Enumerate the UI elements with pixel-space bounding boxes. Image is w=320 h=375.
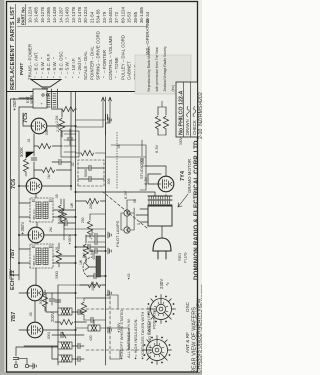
tone capacitor C14 xyxy=(89,176,91,182)
ground symbol under V1 xyxy=(108,327,111,333)
svg-text:+: + xyxy=(89,237,94,240)
wire: left mid bus xyxy=(57,285,59,365)
tube V6 7Y4 rectifier xyxy=(158,176,174,192)
svg-text:” – S.W. ”: ” – S.W. ” xyxy=(40,57,45,78)
svg-text:7Y4: 7Y4 xyxy=(180,170,186,181)
svg-text:Zealand Vintage Radio Society: Zealand Vintage Radio Society xyxy=(163,46,167,92)
svg-text:15-53: 15-53 xyxy=(127,11,132,23)
wire: 1st IF to V3 grid xyxy=(36,243,38,244)
svg-text:.005: .005 xyxy=(107,178,111,185)
wire: V3 plate to 2nd IF xyxy=(36,222,38,227)
switch gang dashed diagonal xyxy=(103,192,147,228)
svg-text:GRAMO MOTOR: GRAMO MOTOR xyxy=(187,159,192,193)
oscillator resistor R7 xyxy=(42,294,47,307)
wire: wafer S1 feed xyxy=(106,328,130,359)
trimmer capacitor C2 xyxy=(78,343,80,349)
svg-text:RED: RED xyxy=(177,253,182,261)
wire: 2nd IF top feeds xyxy=(19,203,30,217)
output transformer T6 xyxy=(33,89,58,108)
antenna terminal xyxy=(14,364,17,367)
tone control dashed box xyxy=(78,160,104,186)
wire: V1 cathode down xyxy=(43,329,76,331)
bc osc coil L4 xyxy=(88,325,100,331)
cathode resistor R3 xyxy=(88,282,101,287)
ground symbol under V2 xyxy=(108,290,111,296)
heater capacitor C16 xyxy=(141,158,143,164)
svg-text:✦= HIGH INSULATION.: ✦= HIGH INSULATION. xyxy=(133,318,138,360)
wire: V2 plate to top xyxy=(19,292,27,294)
svg-text:28-85: 28-85 xyxy=(133,11,138,23)
svg-text:ALL WATTAGE = ½ W.: ALL WATTAGE = ½ W. xyxy=(126,318,131,358)
ground below earth terminal xyxy=(33,363,36,369)
svg-text:2-10 NZ(RMS)4202: 2-10 NZ(RMS)4202 xyxy=(198,92,202,139)
wire: transformer leads up xyxy=(136,209,148,222)
svg-text:100μf: 100μf xyxy=(91,280,95,291)
svg-text:ANT & RF: ANT & RF xyxy=(185,332,190,353)
tuning gang capacitor C4 xyxy=(52,332,84,338)
wire: output transformer to bus xyxy=(19,98,33,107)
resistor R17 below second IF xyxy=(58,205,63,218)
svg-text:DOMINION RADIO & ELECTRICAL CO: DOMINION RADIO & ELECTRICAL CORP. LTD. xyxy=(193,138,200,280)
svg-text:∿: ∿ xyxy=(165,282,171,286)
loudspeaker cone xyxy=(31,80,61,88)
svg-text:” – POINTER: ” – POINTER xyxy=(102,50,107,78)
trimmer capacitor C1 xyxy=(78,356,80,362)
svg-text:✦VOLTAGES TAKEN WITH: ✦VOLTAGES TAKEN WITH xyxy=(140,311,145,360)
svg-text:+: + xyxy=(39,102,44,105)
svg-text:10-1224: 10-1224 xyxy=(27,6,32,23)
oscillator grid capacitor C5 xyxy=(55,300,61,302)
wire: V5 cathode down xyxy=(47,125,76,127)
pilot lamp P1 xyxy=(124,227,130,233)
wire: topmost HT line xyxy=(11,99,34,275)
coupling capacitor C12 xyxy=(33,146,35,178)
svg-text:2.2M: 2.2M xyxy=(56,124,60,132)
grid resistor R9 xyxy=(38,143,51,148)
oscillator coil L3 xyxy=(58,308,72,315)
switch gang dashed link ant xyxy=(86,349,146,351)
svg-text:✦350V: ✦350V xyxy=(20,222,25,235)
svg-text:36-34: 36-34 xyxy=(145,11,150,23)
2nd IF transformer T5 xyxy=(30,198,53,222)
svg-text:PART No: PART No xyxy=(21,7,26,25)
resistor R13 xyxy=(62,106,75,111)
tube V1 7B7 RF amplifier xyxy=(27,322,43,338)
svg-text:8μf: 8μf xyxy=(82,253,86,258)
svg-text:SPKR: SPKR xyxy=(30,94,34,104)
switch gang dashed link horizontal xyxy=(109,295,111,359)
svg-text:with permission from The New: with permission from The New xyxy=(155,47,159,92)
resistor R12 2.2M xyxy=(59,118,64,131)
wire: upper mid bus xyxy=(70,92,72,190)
svg-text:” – TONE: ” – TONE xyxy=(114,57,119,78)
svg-text:20K: 20K xyxy=(89,202,93,209)
scan edge shading left xyxy=(0,372,202,375)
svg-text:16-1485: 16-1485 xyxy=(34,6,39,23)
scan edge shading top xyxy=(0,0,5,375)
svg-text:.0001: .0001 xyxy=(39,297,43,305)
svg-text:25K: 25K xyxy=(79,308,83,315)
svg-text:.01: .01 xyxy=(55,246,59,251)
svg-text:8μf: 8μf xyxy=(90,230,94,235)
antenna series capacitor C0 xyxy=(13,358,19,360)
osc cathode wire xyxy=(76,297,111,299)
svg-text:455 K.C.: 455 K.C. xyxy=(32,254,36,266)
tube V2 ECH21 converter xyxy=(27,285,43,301)
svg-text:500K: 500K xyxy=(19,147,24,157)
oscillator feedback capacitor C8 xyxy=(49,299,55,301)
tone capacitor bank xyxy=(61,131,79,157)
svg-text:7B7: 7B7 xyxy=(11,312,17,322)
divider resistor chain R14 xyxy=(163,116,168,129)
divider resistor chain R15 xyxy=(155,116,160,129)
svg-text:” – S.W. ”: ” – S.W. ” xyxy=(65,57,70,78)
svg-text:1W: 1W xyxy=(79,259,83,265)
tube V4 7C6 detector xyxy=(26,178,42,194)
wire: plug cord xyxy=(161,226,163,238)
wire: V1 plate to top xyxy=(19,329,27,331)
svg-text:✦45: ✦45 xyxy=(127,273,131,280)
wiring notes text xyxy=(119,309,152,360)
svg-text:(Inc): (Inc) xyxy=(171,85,175,92)
svg-text:5000: 5000 xyxy=(84,169,88,177)
switch gang dashed link osc xyxy=(86,308,146,310)
svg-text:13-1478: 13-1478 xyxy=(77,6,82,23)
wire: 1st IF bottoms xyxy=(53,256,76,263)
tube V5 7C5 output xyxy=(31,118,47,134)
svg-text:33-4021: 33-4021 xyxy=(108,6,113,23)
svg-text:13-1493: 13-1493 xyxy=(65,6,70,23)
svg-text:37-72: 37-72 xyxy=(114,11,119,23)
wire: V1 to V2 coupling xyxy=(34,301,36,322)
svg-text:1W: 1W xyxy=(70,202,74,208)
svg-text:POSITION: POSITION xyxy=(152,310,157,329)
wire: speaker lead drops xyxy=(76,123,111,135)
filter resistor R10 40K xyxy=(61,210,66,223)
wire: top B+ bus xyxy=(18,107,20,280)
ground symbol right xyxy=(108,117,111,123)
detector load resistor R5 xyxy=(23,159,28,172)
svg-text:16-1278: 16-1278 xyxy=(40,6,45,23)
frame border xyxy=(7,2,198,373)
AF coupling capacitor C11 xyxy=(67,138,73,140)
volume control VR1 xyxy=(83,256,100,277)
AVC resistor R18 xyxy=(87,221,92,234)
wire: V3 cathode down xyxy=(44,234,76,236)
detector capacitor C10 xyxy=(59,159,61,165)
antenna coil L1 xyxy=(58,355,72,362)
filter choke wires xyxy=(64,229,106,240)
filter capacitor C20 xyxy=(88,244,90,250)
svg-text:7C5: 7C5 xyxy=(23,113,29,123)
svg-text:PLUG: PLUG xyxy=(183,252,188,263)
osc padder capacitor C19 xyxy=(91,317,93,323)
plug prongs xyxy=(158,251,166,259)
svg-text:230V: 230V xyxy=(159,279,164,289)
svg-text:7B7: 7B7 xyxy=(10,249,16,259)
svg-text:½M: ½M xyxy=(90,249,94,255)
svg-text:534-56: 534-56 xyxy=(96,9,101,23)
svg-text:23-79: 23-79 xyxy=(102,11,107,23)
ground symbol under V3 xyxy=(108,232,111,238)
svg-text:” – B.C. OSC.: ” – B.C. OSC. xyxy=(58,50,63,78)
sprinkled value labels xyxy=(27,115,183,341)
svg-text:50K: 50K xyxy=(45,128,49,135)
svg-text:SWITCH IN B.C.: SWITCH IN B.C. xyxy=(146,305,151,335)
bypass capacitor C6 100uF xyxy=(94,273,96,279)
resistor R16 below first IF xyxy=(56,250,61,263)
svg-text:✦250V: ✦250V xyxy=(12,98,17,111)
svg-text:” – S.W. ”: ” – S.W. ” xyxy=(52,57,57,78)
svg-text:89-1224: 89-1224 xyxy=(120,6,125,23)
wire: rectifier plate leads xyxy=(146,166,166,184)
svg-text:” – B.C. R.F.: ” – B.C. R.F. xyxy=(46,53,51,78)
wire: antenna lead xyxy=(16,347,58,364)
svg-text:14-2365: 14-2365 xyxy=(46,6,51,23)
mains plug xyxy=(153,238,171,251)
tube V3 7B7 IF amplifier xyxy=(28,227,44,243)
tone capacitor C15 xyxy=(89,165,91,171)
wire: speaker leads with arrows xyxy=(102,97,112,127)
wire: V2 cathode down xyxy=(43,292,76,294)
speaker lead capacitor C18 xyxy=(106,114,108,120)
svg-text:PULLEY – DIAL CORD: PULLEY – DIAL CORD xyxy=(120,35,125,80)
wire: V5 plate to output transformer xyxy=(23,113,31,126)
svg-text:” – 2nd I.F.: ” – 2nd I.F. xyxy=(77,56,82,78)
title block box xyxy=(176,82,198,137)
svg-text:.0001: .0001 xyxy=(47,332,51,340)
svg-text:.05: .05 xyxy=(117,144,121,149)
filter capacitor C21 xyxy=(95,233,97,239)
screen bypass capacitor C9 xyxy=(65,220,67,226)
svg-text:7C6: 7C6 xyxy=(11,179,17,189)
speaker voice coil xyxy=(42,88,48,89)
svg-text:” – B.C. ANT.: ” – B.C. ANT. xyxy=(34,52,39,78)
resistor R11 20K xyxy=(86,198,99,203)
svg-text:5V: 5V xyxy=(133,198,137,203)
power transformer T1 xyxy=(148,196,172,226)
parts list rows xyxy=(27,6,150,80)
svg-text:PILOT LAMPS: PILOT LAMPS xyxy=(115,221,120,247)
heater wiring row xyxy=(140,140,146,190)
AVC capacitor C17 xyxy=(95,239,97,245)
svg-text:14-1267: 14-1267 xyxy=(58,6,63,23)
svg-text:200V: 200V xyxy=(50,312,55,322)
svg-text:.05: .05 xyxy=(29,312,33,317)
wire: 2nd IF to V4 xyxy=(35,194,37,198)
svg-text:100V: 100V xyxy=(8,269,13,279)
wire: lamp leads xyxy=(121,200,136,230)
gramo switch dotted link xyxy=(116,132,118,188)
svg-text:No PHILCO 122-A: No PHILCO 122-A xyxy=(179,90,185,135)
parts list separator wire xyxy=(7,91,198,93)
wafer switch S1 ANT and RF xyxy=(143,336,172,365)
svg-text:1M: 1M xyxy=(47,174,51,179)
1st IF transformer T4 xyxy=(30,244,53,268)
osc trimmer resistor R19 xyxy=(81,302,86,315)
svg-text:CABINET: CABINET xyxy=(127,61,132,80)
wire: divider chain ends xyxy=(158,101,166,135)
svg-text:SPRING – DRIVE CORD: SPRING – DRIVE CORD xyxy=(96,31,101,80)
svg-text:CHECK: CHECK xyxy=(192,120,197,135)
svg-text:300V: 300V xyxy=(179,136,183,145)
svg-text:.05: .05 xyxy=(55,194,59,199)
svg-text:DRAWN: DRAWN xyxy=(185,119,190,135)
AVC resistor R4 xyxy=(83,244,88,257)
wafer switch S2 OSC xyxy=(147,295,176,324)
ext speaker jack contacts xyxy=(42,94,44,96)
wire: 1st IF top feeds xyxy=(19,249,30,263)
svg-text:” – 1st I.F.: ” – 1st I.F. xyxy=(71,58,76,78)
svg-text:300Ω: 300Ω xyxy=(55,270,59,279)
svg-text:14-1439: 14-1439 xyxy=(52,6,57,23)
svg-text:S: S xyxy=(137,222,141,225)
svg-text:POINTER – DIAL: POINTER – DIAL xyxy=(89,46,94,80)
wire: coil tops xyxy=(24,293,58,359)
wire: V2 plate to 1st IF xyxy=(35,268,37,285)
svg-text:.02: .02 xyxy=(71,162,75,167)
svg-text:2.2M: 2.2M xyxy=(55,115,59,123)
svg-text:✦100V: ✦100V xyxy=(117,322,121,333)
wire: V3 plate to top xyxy=(19,234,28,236)
svg-text:SCALE – DIAL: SCALE – DIAL xyxy=(83,51,88,80)
svg-text:TRANS – POWER: TRANS – POWER xyxy=(27,44,32,80)
wire: transformer secondary to rectifier xyxy=(75,192,166,196)
wire: AVC bus xyxy=(75,92,77,365)
wire: V4 plate to top xyxy=(19,185,26,187)
padder capacitor C3 xyxy=(78,309,80,315)
svg-text:PART: PART xyxy=(19,63,24,75)
AVC capacitor C7 xyxy=(95,248,97,254)
paper background xyxy=(0,0,202,375)
svg-text:OSC: OSC xyxy=(185,301,190,312)
wire: power section risers xyxy=(106,145,146,166)
svg-text:6.3V: 6.3V xyxy=(123,190,128,199)
grid leak resistor R20 xyxy=(81,150,94,155)
svg-text:6.3V: 6.3V xyxy=(154,144,159,153)
svg-text:455 K.C.: 455 K.C. xyxy=(32,208,36,220)
ground symbol under C7 xyxy=(108,248,111,254)
svg-text:CENTRE ROTORS AT FRONT OF WAFE: CENTRE ROTORS AT FRONT OF WAFER xyxy=(200,284,202,373)
grid return wire left xyxy=(58,284,106,286)
svg-text:✦350V: ✦350V xyxy=(68,234,72,245)
wire: ground bus xyxy=(105,97,107,365)
svg-text:2M: 2M xyxy=(49,227,53,232)
wire: to V5 grid xyxy=(33,134,35,146)
junction dots xyxy=(18,125,107,331)
svg-text:+: + xyxy=(81,248,86,251)
detector resistor R6 xyxy=(42,167,55,172)
museum stamp box xyxy=(135,55,191,94)
parts list column divider wire xyxy=(17,26,148,28)
wire: osc coil taps xyxy=(76,320,106,328)
RF coil L2 xyxy=(58,342,72,349)
svg-text:Reproduced by Radio Museum: Reproduced by Radio Museum xyxy=(147,46,151,92)
wire: wafer S2 feed xyxy=(106,295,119,309)
wire: V4 cathode down xyxy=(42,185,71,187)
svg-text:21-54: 21-54 xyxy=(89,11,94,23)
svg-text:36-1485: 36-1485 xyxy=(139,6,144,23)
wire: 2nd IF bottoms xyxy=(53,210,76,217)
svg-text:CONTROL – VOLUME: CONTROL – VOLUME xyxy=(108,36,113,80)
pilot lamp P2 xyxy=(124,210,130,216)
svg-text:430: 430 xyxy=(89,335,93,341)
svg-text:.01: .01 xyxy=(27,138,31,143)
oscillator resistor R2 xyxy=(60,319,73,324)
svg-text:20-1224: 20-1224 xyxy=(83,6,88,23)
earth terminal xyxy=(25,364,28,367)
svg-text:250: 250 xyxy=(81,217,85,223)
svg-text:13-1378: 13-1378 xyxy=(71,6,76,23)
